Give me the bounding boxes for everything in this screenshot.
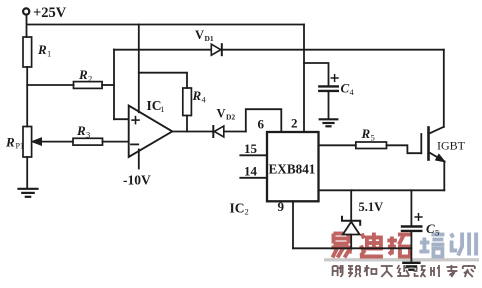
svg-text:-10V: -10V	[123, 173, 151, 188]
svg-text:R: R	[78, 67, 88, 82]
wire feedback top	[139, 73, 187, 88]
op-amp IC1	[129, 106, 173, 157]
svg-text:15: 15	[244, 141, 258, 156]
wire R2 to node	[102, 84, 114, 86]
diode VD2	[213, 126, 224, 137]
resistor R4	[183, 88, 192, 116]
capacitor C4	[319, 86, 338, 91]
wire collector vertical	[443, 50, 445, 127]
svg-text:P1: P1	[16, 142, 24, 151]
svg-text:R: R	[37, 42, 47, 57]
svg-text:V: V	[217, 107, 226, 121]
svg-text:1: 1	[47, 49, 51, 59]
wire op-amp output	[172, 131, 212, 133]
svg-text:IC: IC	[147, 98, 162, 113]
svg-text:2: 2	[88, 74, 92, 84]
label C5 plus	[415, 214, 422, 221]
watermark	[324, 232, 479, 278]
wire R5 to gate jog	[387, 145, 422, 153]
svg-text:3: 3	[86, 130, 90, 140]
wire C4 jog	[304, 63, 329, 85]
wire left vertical from terminal to R1	[26, 15, 28, 37]
wire zener top lead	[350, 190, 352, 221]
wire zener bottom lead	[350, 235, 352, 249]
wire R1 to potentiometer	[26, 67, 28, 127]
svg-text:R: R	[76, 123, 86, 138]
wire C5 top lead	[410, 190, 412, 225]
svg-text:14: 14	[244, 164, 258, 179]
svg-text:+25V: +25V	[33, 5, 67, 21]
ground left	[19, 189, 38, 197]
IC IC2 EXB841	[267, 132, 319, 201]
wire C4 to ground	[328, 92, 330, 119]
wire vertical node x114	[113, 50, 115, 120]
wire top rail	[27, 24, 304, 26]
wire upper rail right of VD1	[222, 49, 444, 51]
svg-text:5: 5	[371, 133, 375, 143]
ground C5	[403, 263, 419, 270]
ground C4	[320, 119, 338, 126]
wire wiper to R3	[42, 141, 74, 143]
wire R5 left lead	[319, 144, 356, 146]
wire C5 to ground	[410, 232, 412, 262]
wire emitter vertical	[443, 161, 445, 190]
svg-text:C: C	[426, 221, 435, 236]
svg-text:5.1V: 5.1V	[359, 200, 384, 214]
svg-text:5: 5	[435, 228, 439, 238]
svg-text:IC: IC	[230, 201, 245, 216]
svg-text:C: C	[341, 81, 350, 96]
wire to op-amp plus input	[114, 118, 129, 120]
svg-text:R: R	[192, 88, 202, 103]
wire bottom rail	[293, 247, 411, 249]
transistor Q1 IGBT	[421, 127, 444, 162]
svg-text:V: V	[195, 28, 204, 42]
resistor R3	[73, 138, 103, 145]
wire negative supply stub	[138, 150, 140, 169]
wire R3 to op-amp minus input	[103, 141, 130, 143]
svg-text:R: R	[5, 135, 15, 150]
svg-text:2: 2	[245, 207, 249, 217]
diode VZ zener 5.1V	[342, 217, 360, 235]
svg-text:9: 9	[278, 199, 285, 214]
wire pin 9 vertical	[292, 201, 294, 248]
svg-text:1: 1	[160, 104, 164, 114]
wire pin 6 jog	[246, 109, 281, 132]
resistor R1	[23, 37, 32, 67]
label C4 plus	[331, 75, 338, 82]
potentiometer RP1	[23, 127, 42, 158]
svg-text:D2: D2	[226, 113, 235, 122]
wire R2 branch	[27, 84, 73, 86]
wire pin 2 vertical	[303, 25, 305, 133]
pin 15 stub	[240, 154, 267, 156]
svg-text:EXB841: EXB841	[269, 162, 316, 177]
wire gate-return rail	[319, 189, 445, 191]
resistor R2	[74, 82, 103, 89]
wire VD2 to jog	[224, 131, 246, 133]
wire potentiometer to ground	[26, 157, 28, 188]
resistor R5	[356, 142, 387, 149]
svg-text:IGBT: IGBT	[437, 139, 466, 153]
capacitor C5	[402, 227, 421, 231]
svg-text:R: R	[361, 126, 371, 141]
wire upper rail left of VD1	[114, 49, 211, 51]
pin 14 stub	[240, 177, 267, 179]
wire R4 bottom lead	[186, 116, 188, 132]
svg-text:2: 2	[291, 116, 298, 131]
terminal +25V	[23, 8, 29, 14]
svg-text:6: 6	[258, 117, 265, 132]
diode VD1	[211, 44, 222, 55]
wire positive supply stub	[138, 25, 140, 113]
svg-text:D1: D1	[205, 34, 214, 43]
